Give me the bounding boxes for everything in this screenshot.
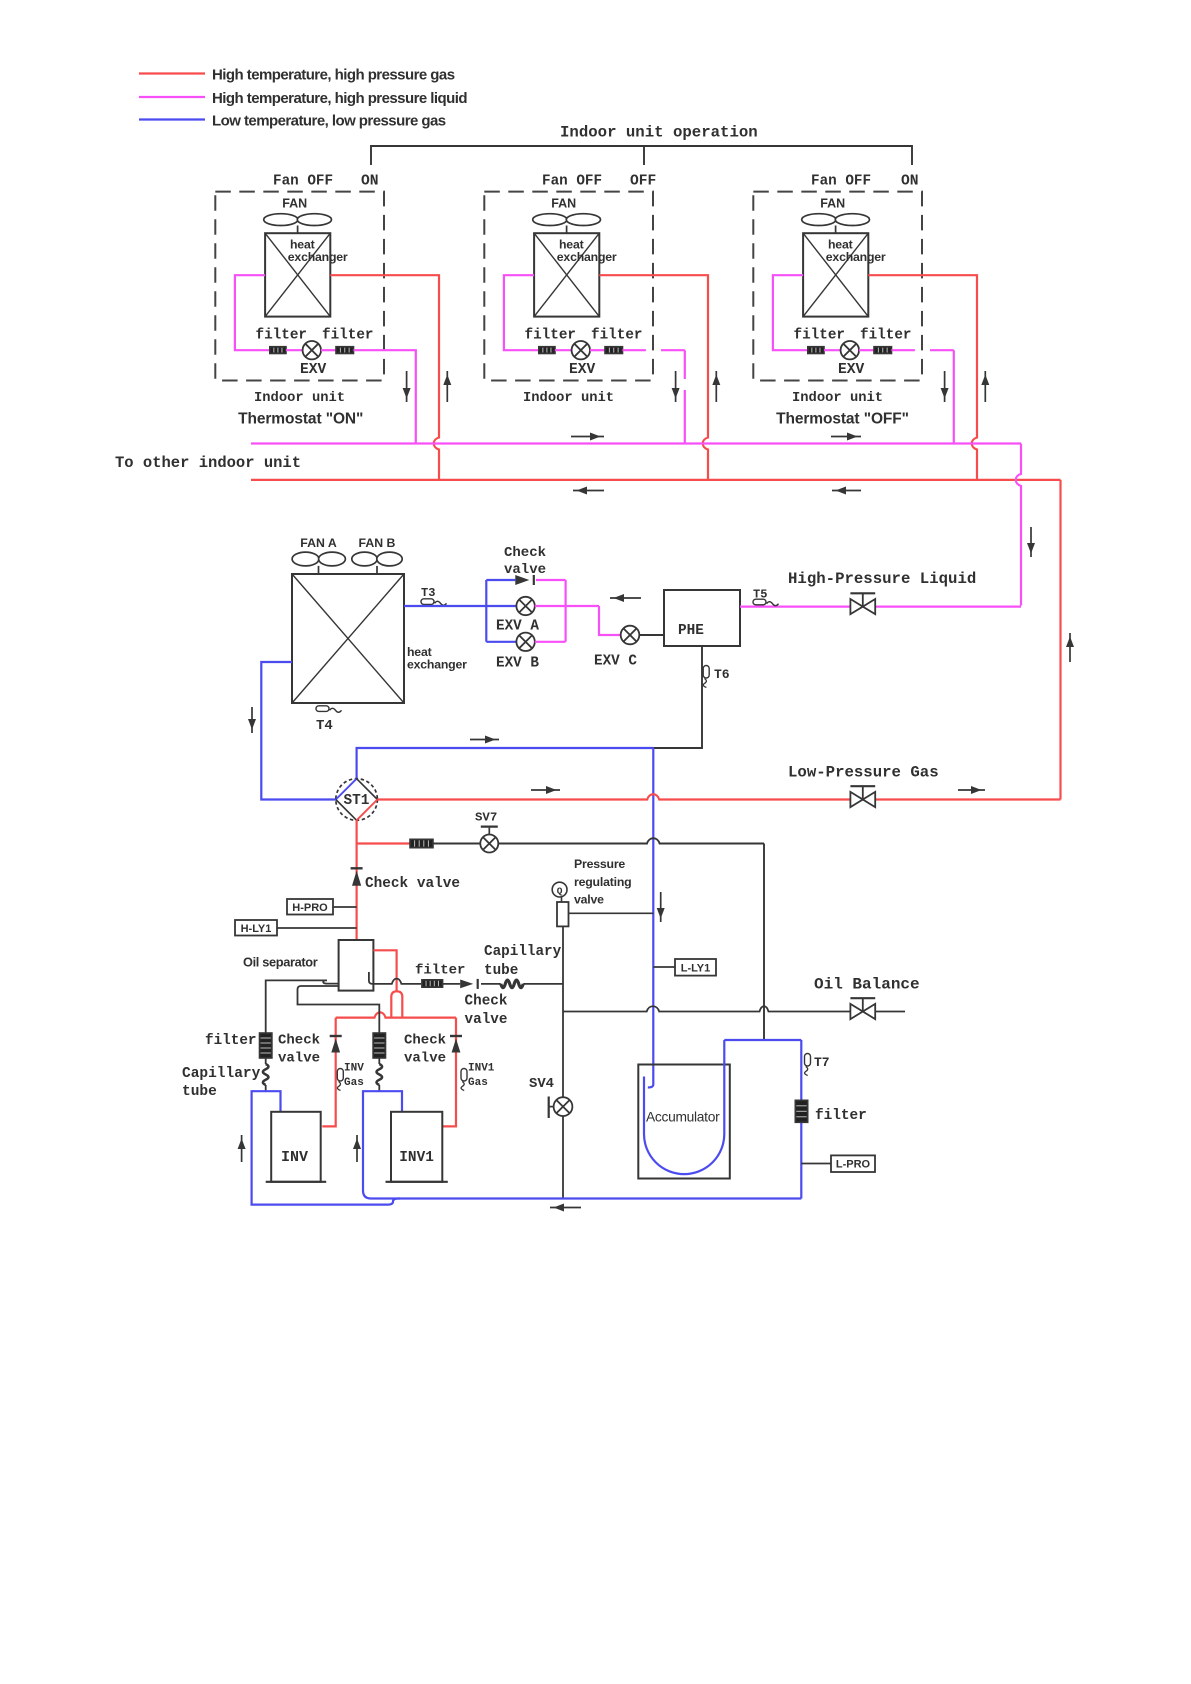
flow arrow left under suction manifold: [550, 1204, 581, 1212]
svg-text:H-PRO: H-PRO: [292, 902, 328, 914]
legend red line sample: [139, 72, 205, 74]
svg-text:T6: T6: [714, 667, 730, 682]
svg-text:EXV C: EXV C: [594, 654, 637, 670]
filter on suction downcomer: [795, 1100, 807, 1122]
oil return line to INV1 (inner hairpin): [298, 986, 380, 1033]
legend label: Low temperature, low pressure gas: [212, 113, 446, 130]
flow arrow right on low-pressure gas line (left): [531, 786, 560, 794]
indoor unit 1 state label ON: [361, 174, 379, 190]
black pipe EXV C to PHE: [639, 634, 664, 636]
indoor unit 1 heat exchanger label: [288, 238, 348, 264]
indoor unit 1 filter label left: [256, 327, 307, 343]
label Oil Balance: [814, 976, 920, 994]
svg-text:INV: INV: [281, 1149, 308, 1166]
svg-text:exchanger: exchanger: [288, 250, 348, 264]
EXV block right magenta manifold: [564, 580, 566, 642]
sensor INV1 Gas: [461, 1063, 495, 1091]
accumulator vessel: [638, 1065, 730, 1179]
magenta jog pipe to EXV C: [599, 606, 621, 635]
indoor unit 3 pipe EXV to filter: [859, 349, 874, 351]
svg-text:filter: filter: [322, 327, 373, 343]
label SV4: [529, 1076, 554, 1092]
indoor unit 2 state label OFF: [630, 174, 656, 190]
svg-text:PHE: PHE: [678, 623, 704, 639]
indoor unit 3 liquid pipe (magenta) HX-left to EXV: [773, 275, 808, 350]
indoor unit 1 heat exchanger: [265, 233, 330, 316]
red low-pressure gas line ST1 to right drop with jog over blue: [377, 794, 1060, 799]
indoor unit 2 filter (right of EXV): [605, 347, 623, 354]
flow arrow left above EXV outlet: [610, 594, 641, 602]
svg-text:filter: filter: [591, 327, 642, 343]
pipe capillary to pressure-regulating line: [523, 983, 563, 985]
indoor unit 3 filter (left of EXV): [808, 347, 824, 354]
black pipe SV7 branch down to accumulator inlet tee: [763, 844, 765, 1041]
legend label: High temperature, high pressure gas: [212, 67, 455, 84]
indoor unit 1 label Indoor unit: [254, 390, 345, 406]
black pipe PHE bottom to suction tee: [653, 646, 702, 748]
svg-text:filter: filter: [205, 1033, 256, 1049]
svg-text:valve: valve: [504, 562, 546, 578]
compressor INV1: [386, 1112, 448, 1182]
svg-text:T4: T4: [316, 718, 333, 734]
label filter (suction): [815, 1108, 867, 1124]
svg-text:exchanger: exchanger: [826, 250, 886, 264]
svg-text:FAN A: FAN A: [300, 536, 337, 550]
oil balance service valve: [850, 998, 875, 1019]
svg-text:FAN: FAN: [820, 197, 845, 211]
label filter (INV oil return): [205, 1033, 256, 1049]
svg-text:Q: Q: [557, 886, 563, 897]
compressor INV: [266, 1112, 327, 1182]
svg-text:Check valve: Check valve: [365, 876, 460, 892]
svg-text:EXV: EXV: [838, 362, 865, 378]
svg-text:T3: T3: [421, 586, 435, 600]
label Oil separator: [243, 955, 318, 970]
svg-text:OFF: OFF: [630, 174, 656, 190]
4-way valve ST1: [336, 779, 378, 821]
svg-text:exchanger: exchanger: [407, 658, 467, 672]
label EXV C: [594, 654, 637, 670]
svg-text:H-LY1: H-LY1: [241, 923, 272, 935]
indoor unit 2 heat exchanger: [534, 233, 599, 316]
sensor T6: [703, 666, 730, 688]
svg-text:High temperature, high pressur: High temperature, high pressure liquid: [212, 90, 467, 107]
blue suction drop pipe to accumulator: [648, 748, 654, 1088]
indoor unit 2 FAN label: [551, 197, 576, 211]
indoor unit 3 filter label right: [860, 327, 911, 343]
indoor unit 1 EXV label: [300, 362, 327, 378]
svg-text:SV7: SV7: [475, 811, 497, 825]
svg-text:tube: tube: [182, 1084, 217, 1100]
indoor unit 2 state label Fan OFF: [542, 174, 602, 190]
pressure regulating line down through SV4: [562, 926, 564, 1097]
indoor unit 2 heat exchanger label: [557, 238, 617, 264]
svg-text:filter: filter: [860, 327, 911, 343]
sensor T4: [316, 706, 342, 734]
blue suction pipe to INV: [252, 1091, 398, 1204]
indoor unit 3 thermostat label: [776, 411, 909, 428]
filter on oil outlet line: [422, 980, 443, 987]
indoor unit 2 EXV label: [569, 362, 596, 378]
indoor unit 1 EXV valve: [303, 341, 321, 359]
check valve INV discharge: [330, 1036, 342, 1053]
solenoid valve SV7: [480, 827, 498, 853]
check valve on compressor discharge riser: [351, 868, 363, 886]
svg-text:Indoor unit: Indoor unit: [792, 390, 883, 406]
svg-text:FAN: FAN: [282, 197, 307, 211]
indoor unit 3 liquid drop pipe to magenta bus (with breaks at dashed border): [892, 350, 954, 443]
label EXV A: [496, 619, 539, 635]
plate heat exchanger PHE: [664, 590, 740, 646]
label INV1: [399, 1150, 434, 1166]
svg-text:Indoor unit: Indoor unit: [523, 390, 614, 406]
outdoor heat exchanger label: [407, 645, 467, 672]
indoor unit 1 fan blades: [264, 214, 332, 233]
indoor unit 3 state label Fan OFF: [811, 174, 871, 190]
svg-text:T7: T7: [814, 1055, 830, 1070]
svg-text:valve: valve: [574, 893, 604, 907]
svg-text:FAN B: FAN B: [359, 536, 396, 550]
svg-text:Check: Check: [404, 1033, 446, 1049]
sensor INV Gas: [337, 1063, 364, 1091]
svg-text:Fan OFF: Fan OFF: [273, 174, 333, 190]
red segment of SV7 branch: [357, 842, 410, 844]
indoor unit 1 dashed enclosure: [215, 192, 384, 381]
red discharge fork to both compressor risers: [391, 991, 402, 1017]
svg-text:filter: filter: [256, 327, 307, 343]
EXV block left blue manifold: [485, 580, 487, 642]
check valve INV1 discharge: [450, 1036, 462, 1053]
indoor unit 2 gas pipe (red) HX-right down to red bus with jog over magenta bus: [599, 275, 708, 480]
indoor unit 2 filter label left: [525, 327, 576, 343]
check valve (EXV bypass): [515, 575, 534, 585]
red pipe ST1 bottom to oil separator: [356, 820, 358, 940]
svg-text:L-PRO: L-PRO: [836, 1159, 871, 1171]
indoor unit 2 pipe EXV to filter: [590, 349, 605, 351]
capillary tube on oil outlet: [501, 980, 523, 988]
sensor T5: [753, 588, 779, 606]
EXV B branch blue segment: [486, 641, 516, 643]
indoor unit 2 label Indoor unit: [523, 390, 614, 406]
blue suction manifold: [398, 1197, 801, 1199]
blue pipe ST1 top to suction tee: [357, 748, 654, 779]
pressure sensor L-LY1: [653, 959, 716, 976]
EXV A valve: [516, 597, 534, 615]
oil return line to INV (outer hairpin): [266, 980, 339, 1033]
sensor T3 symbol: [421, 599, 447, 606]
label Pressure regulating valve: [574, 857, 631, 907]
svg-text:ON: ON: [361, 174, 379, 190]
indoor unit 1 filter (right of EXV): [336, 347, 354, 354]
solenoid valve SV4: [549, 1097, 573, 1119]
label Accumulator: [646, 1110, 720, 1125]
svg-text:Capillary: Capillary: [484, 944, 562, 960]
svg-text:filter: filter: [525, 327, 576, 343]
low-pressure gas service valve: [850, 786, 875, 807]
svg-text:filter: filter: [815, 1108, 867, 1124]
label EXV B: [496, 656, 539, 672]
high-pressure liquid service valve: [850, 593, 875, 614]
pressure sensor H-LY1: [235, 920, 357, 936]
check valve on oil outlet: [460, 979, 478, 989]
sensor T7: [805, 1054, 830, 1076]
indoor unit 1 pipe filter to EXV: [286, 349, 303, 351]
indoor unit 3 dashed enclosure: [753, 192, 922, 381]
red riser INV side: [322, 1018, 335, 1127]
indoor unit 1 pipe EXV to filter: [321, 349, 336, 351]
svg-text:ON: ON: [901, 174, 919, 190]
svg-text:valve: valve: [404, 1051, 446, 1067]
svg-text:Fan OFF: Fan OFF: [811, 174, 871, 190]
label Check valve (EXV bypass): [504, 545, 546, 578]
oil separator dip tube outlet with jog over red: [369, 972, 421, 984]
check valve branch blue segment: [486, 579, 515, 581]
svg-text:Check: Check: [465, 994, 508, 1010]
indoor unit 3 state label ON: [901, 174, 919, 190]
label: To other indoor unit: [115, 454, 301, 472]
label Check valve INV1: [404, 1033, 446, 1067]
filter INV1 oil return: [373, 1033, 385, 1058]
legend blue line sample: [139, 118, 205, 120]
label Capillary tube (INV oil return): [182, 1066, 261, 1100]
indoor unit 3 downward flow arrow: [941, 371, 949, 402]
flow arrow left under red bus (right): [832, 487, 861, 495]
svg-text:To other indoor unit: To other indoor unit: [115, 454, 301, 472]
EXV B valve: [516, 633, 534, 651]
magenta liquid bus line: [251, 442, 1021, 444]
svg-text:Thermostat "OFF": Thermostat "OFF": [776, 411, 909, 428]
svg-text:Capillary: Capillary: [182, 1066, 261, 1082]
svg-text:Indoor unit operation: Indoor unit operation: [560, 124, 758, 142]
svg-text:SV4: SV4: [529, 1076, 554, 1092]
indoor unit 3 fan blades: [802, 214, 870, 233]
label FAN A: [300, 536, 337, 550]
svg-text:High-Pressure Liquid: High-Pressure Liquid: [788, 570, 976, 588]
svg-text:Pressure: Pressure: [574, 857, 625, 871]
flow arrow left under red bus (left): [573, 487, 604, 495]
indoor unit 2 EXV valve: [572, 341, 590, 359]
label Low-Pressure Gas: [788, 764, 939, 782]
EXV A magenta outlet: [535, 605, 599, 607]
svg-text:filter: filter: [794, 327, 845, 343]
capillary tube INV oil return: [263, 1058, 269, 1091]
label PHE: [678, 623, 704, 639]
downward flow arrow on magenta drop: [1027, 527, 1035, 557]
indoor unit 3 upward flow arrow: [981, 371, 989, 402]
sensor T3 label: [421, 586, 435, 600]
indoor unit 1 liquid pipe (magenta) HX-left to EXV: [235, 275, 270, 350]
label ST1: [344, 793, 370, 809]
label High-Pressure Liquid: [788, 570, 976, 588]
label filter (oil outlet): [415, 963, 465, 979]
svg-text:valve: valve: [465, 1012, 508, 1028]
red riser INV1 side: [442, 1018, 456, 1127]
red gas bus line: [251, 479, 1061, 481]
svg-text:Check: Check: [278, 1033, 320, 1049]
indoor unit 1 FAN label: [282, 197, 307, 211]
svg-text:Check: Check: [504, 545, 546, 561]
indoor unit 2 liquid drop pipe to magenta bus (with breaks at dashed border): [623, 350, 685, 443]
svg-text:regulating: regulating: [574, 875, 631, 889]
svg-text:Oil separator: Oil separator: [243, 955, 318, 970]
red bus right drop: [1059, 480, 1061, 800]
indoor unit 2 upward flow arrow: [712, 371, 720, 402]
oil balance line with jogs over blue drop and SV7 riser: [563, 1006, 905, 1011]
flow arrow right on suction header: [470, 736, 499, 744]
svg-text:Indoor unit: Indoor unit: [254, 390, 345, 406]
label FAN B: [359, 536, 396, 550]
upward flow arrow INV suction: [238, 1135, 246, 1162]
EXV B magenta outlet: [535, 641, 566, 643]
legend magenta line sample: [139, 96, 205, 98]
downward flow arrow on outdoor-left blue pipe: [248, 707, 256, 733]
pipe SV4 to suction manifold: [562, 1116, 564, 1199]
upward flow arrow INV1 suction: [353, 1135, 361, 1162]
svg-text:EXV A: EXV A: [496, 619, 539, 635]
label Check valve (oil outlet): [465, 994, 508, 1029]
svg-text:EXV B: EXV B: [496, 656, 539, 672]
label SV7: [475, 811, 497, 825]
svg-text:ST1: ST1: [344, 793, 370, 809]
blue pipe HX-left down to ST1 left port: [261, 662, 336, 800]
indoor unit 1 filter label right: [322, 327, 373, 343]
indoor unit 3 FAN label: [820, 197, 845, 211]
svg-text:EXV: EXV: [569, 362, 596, 378]
indoor unit 3 filter label left: [794, 327, 845, 343]
indoor unit 3 EXV label: [838, 362, 865, 378]
pressure regulating valve: [552, 882, 568, 926]
svg-text:High temperature, high pressur: High temperature, high pressure gas: [212, 67, 455, 84]
svg-text:exchanger: exchanger: [557, 250, 617, 264]
flow arrow right on magenta bus (left): [571, 433, 604, 441]
blue pipe HX-right to EXV block: [404, 605, 516, 607]
indoor unit 3 EXV valve: [841, 341, 859, 359]
indoor unit 2 pipe filter to EXV: [555, 349, 572, 351]
svg-text:Accumulator: Accumulator: [646, 1110, 720, 1125]
indoor unit 2 filter label right: [591, 327, 642, 343]
magenta pipe PHE to high-pressure liquid valve: [740, 605, 1021, 607]
svg-text:Low-Pressure Gas: Low-Pressure Gas: [788, 764, 939, 782]
red discharge manifold with jog over oil line: [336, 1012, 456, 1017]
flow arrow right on low-pressure gas line (right): [958, 786, 985, 794]
svg-text:FAN: FAN: [551, 197, 576, 211]
check valve branch magenta segment: [536, 579, 566, 581]
svg-text:Oil Balance: Oil Balance: [814, 976, 920, 994]
indoor unit 1 upward flow arrow: [443, 371, 451, 402]
red discharge pipe oil separator outlet down to fork: [373, 950, 396, 991]
indoor unit 3 pipe filter to EXV: [824, 349, 841, 351]
svg-text:Gas: Gas: [344, 1077, 364, 1089]
EXV C valve: [621, 626, 640, 645]
indoor unit 2 fan blades: [533, 214, 601, 233]
indoor unit 3 label Indoor unit: [792, 390, 883, 406]
accumulator suction U-tube: [644, 1040, 724, 1174]
indoor unit 1 thermostat label: [238, 411, 363, 428]
pipe filter to check valve: [443, 983, 461, 985]
legend label: High temperature, high pressure liquid: [212, 90, 467, 107]
filter on SV7 branch: [410, 839, 433, 847]
svg-text:Gas: Gas: [468, 1077, 488, 1089]
svg-text:L-LY1: L-LY1: [681, 963, 711, 975]
flow arrow right on magenta bus (right): [831, 433, 861, 441]
pipe check valve to capillary: [481, 983, 501, 985]
capillary tube INV1 oil return: [377, 1058, 383, 1091]
svg-text:INV: INV: [344, 1063, 364, 1075]
indoor unit 2 liquid pipe (magenta) HX-left to EXV: [504, 275, 539, 350]
blue suction pipe to INV1: [363, 1091, 402, 1198]
filter INV oil return: [260, 1033, 272, 1058]
svg-text:filter: filter: [415, 963, 465, 979]
svg-text:valve: valve: [278, 1051, 320, 1067]
svg-text:Thermostat "ON": Thermostat "ON": [238, 411, 363, 428]
label Check valve (discharge): [365, 876, 460, 892]
indoor unit 1 filter (left of EXV): [270, 347, 286, 354]
blue suction downcomer right: [800, 1040, 802, 1199]
magenta bus right drop with jog over red bus: [1016, 444, 1021, 606]
pressure switch H-PRO: [287, 899, 357, 915]
svg-text:tube: tube: [484, 963, 518, 979]
indoor unit 3 heat exchanger: [803, 233, 868, 316]
indoor unit 2 downward flow arrow: [672, 371, 680, 402]
blue pipe accumulator outlet top run: [724, 1039, 801, 1041]
svg-text:EXV: EXV: [300, 362, 327, 378]
label Check valve INV: [278, 1033, 320, 1067]
svg-text:Fan OFF: Fan OFF: [542, 174, 602, 190]
oil separator vessel: [339, 940, 374, 991]
downward flow arrow on suction drop: [657, 892, 665, 922]
label INV: [281, 1149, 308, 1166]
outdoor heat exchanger: [292, 574, 404, 703]
pressure switch L-PRO: [801, 1155, 875, 1172]
svg-text:Low temperature, low pressure: Low temperature, low pressure gas: [212, 113, 446, 130]
label: Indoor unit operation: [560, 124, 758, 142]
indoor unit 2 dashed enclosure: [484, 192, 653, 381]
indoor unit 1 state label Fan OFF: [273, 174, 333, 190]
indoor unit 3 gas pipe (red) HX-right down to red bus with jog over magenta bus: [868, 275, 977, 480]
label Capillary tube (oil outlet): [484, 944, 562, 979]
indoor unit 3 heat exchanger label: [826, 238, 886, 264]
indoor unit 1 downward flow arrow: [403, 371, 411, 402]
outdoor fan B blades: [352, 552, 402, 574]
pipe pressure regulating valve to blue suction drop: [569, 912, 654, 914]
svg-text:INV1: INV1: [399, 1150, 434, 1166]
svg-text:INV1: INV1: [468, 1063, 495, 1075]
black SV7 branch pipe with jog over blue drop: [433, 838, 764, 843]
indoor unit 3 filter (right of EXV): [874, 347, 892, 354]
indoor unit 1 liquid drop pipe to magenta bus: [354, 350, 416, 443]
outdoor fan A blades: [292, 552, 345, 574]
indoor unit 1 gas pipe (red) HX-right down to red bus with jog over magenta bus: [330, 275, 439, 480]
upward flow arrow on red drop: [1066, 633, 1074, 662]
indoor unit operation bracket: [371, 146, 912, 165]
indoor unit 2 filter (left of EXV): [539, 347, 555, 354]
